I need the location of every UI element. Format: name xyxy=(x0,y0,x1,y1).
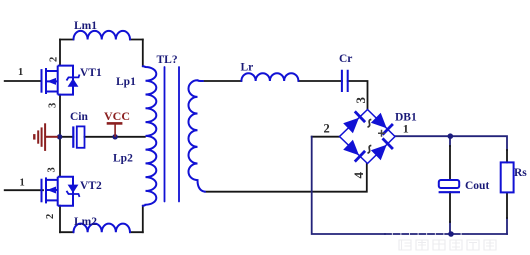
svg-text:2: 2 xyxy=(324,122,330,136)
svg-text:VT2: VT2 xyxy=(80,180,102,192)
svg-text:Lp1: Lp1 xyxy=(116,76,136,88)
svg-text:1: 1 xyxy=(20,177,25,188)
svg-text:1: 1 xyxy=(403,121,409,135)
svg-text:3: 3 xyxy=(48,103,59,108)
svg-text:Lp2: Lp2 xyxy=(113,153,133,165)
svg-text:4: 4 xyxy=(351,172,366,179)
svg-text:VT1: VT1 xyxy=(80,67,102,79)
svg-text:Cr: Cr xyxy=(339,53,352,65)
svg-text:1: 1 xyxy=(18,67,23,78)
svg-text:Cout: Cout xyxy=(465,180,489,192)
svg-text:2: 2 xyxy=(49,57,60,62)
svg-text:Cin: Cin xyxy=(70,111,89,123)
svg-text:Lr: Lr xyxy=(241,62,254,74)
svg-text:Lm1: Lm1 xyxy=(74,20,97,32)
svg-text:3: 3 xyxy=(47,167,58,172)
svg-text:TL?: TL? xyxy=(157,54,178,66)
svg-text:VCC: VCC xyxy=(104,109,130,123)
svg-text:Rs: Rs xyxy=(514,167,527,179)
svg-text:2: 2 xyxy=(45,214,56,219)
svg-text:3: 3 xyxy=(353,97,368,104)
svg-text:Lm2: Lm2 xyxy=(74,216,97,228)
